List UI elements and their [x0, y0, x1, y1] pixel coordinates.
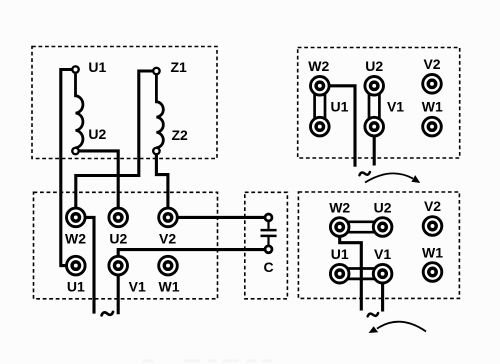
- svg-text:W1: W1: [159, 278, 180, 294]
- svg-text:V2: V2: [424, 198, 441, 214]
- svg-text:W2: W2: [65, 230, 86, 246]
- svg-text:V2: V2: [423, 56, 440, 72]
- svg-text:U1: U1: [331, 99, 349, 115]
- svg-text:U2: U2: [374, 200, 392, 216]
- svg-text:U2: U2: [365, 58, 383, 74]
- svg-text:V1: V1: [129, 278, 146, 294]
- svg-text:V1: V1: [387, 99, 404, 115]
- svg-text:U1: U1: [331, 246, 349, 262]
- svg-text:V1: V1: [374, 246, 391, 262]
- svg-text:C: C: [264, 259, 274, 275]
- svg-text:Z2: Z2: [172, 127, 189, 143]
- svg-text:U1: U1: [88, 59, 106, 75]
- svg-text:U2: U2: [109, 230, 127, 246]
- svg-text:W1: W1: [422, 245, 443, 261]
- svg-text:W2: W2: [329, 200, 350, 216]
- svg-text:Z1: Z1: [171, 59, 188, 75]
- svg-text:U1: U1: [67, 278, 85, 294]
- svg-text:V2: V2: [159, 230, 176, 246]
- svg-text:W1: W1: [422, 99, 443, 115]
- svg-text:U2: U2: [88, 126, 106, 142]
- svg-text:W2: W2: [308, 58, 329, 74]
